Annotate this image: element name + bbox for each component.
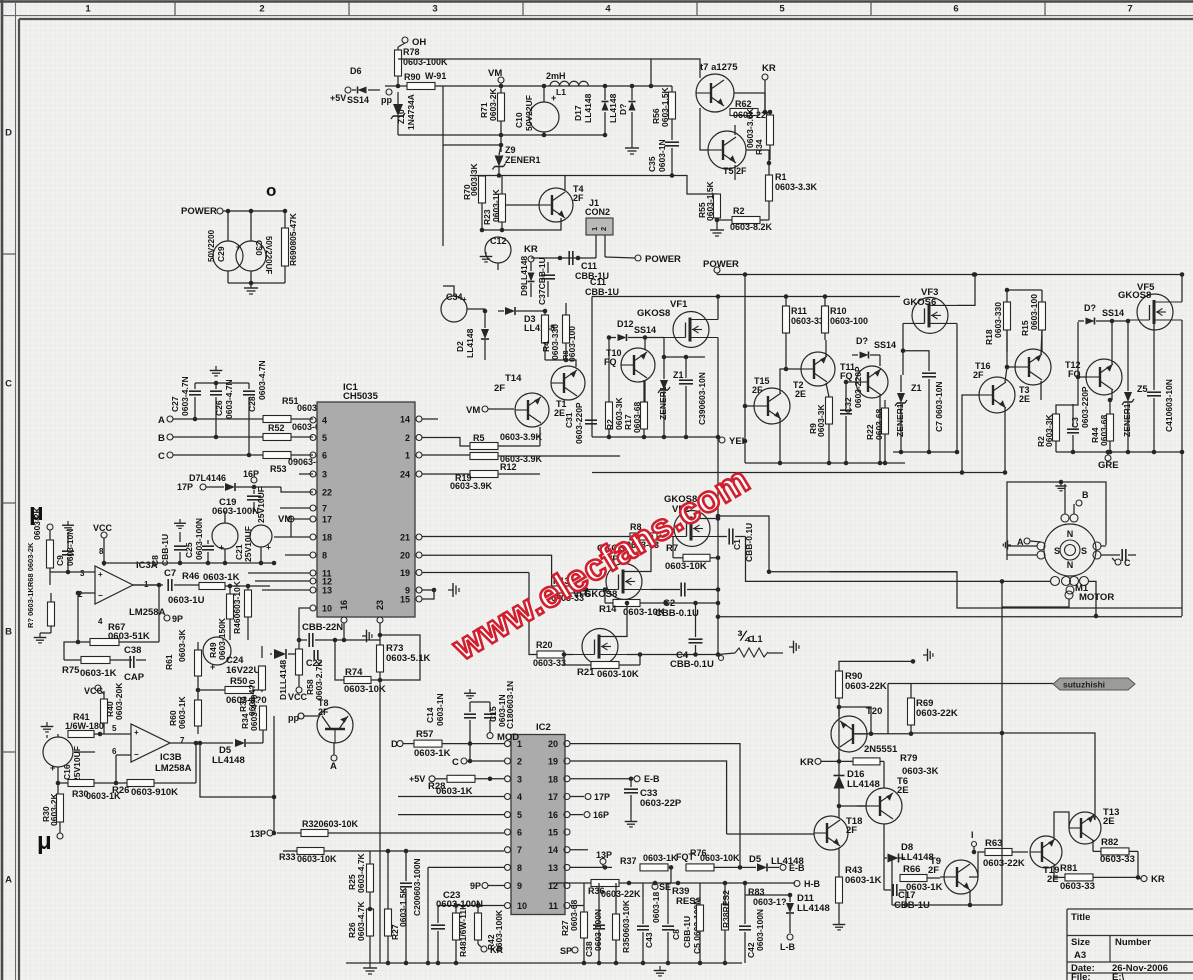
svg-text:0603-3.9K: 0603-3.9K [450,481,493,491]
resistor R26b 0603-910K [127,780,154,787]
IC1 pin21 wire [422,536,630,538]
IC2 pin 20 (right) [564,741,570,747]
node VM at T14 [482,406,488,412]
svg-text:C: C [5,379,12,390]
resistor Rin 0603-1K [48,602,55,626]
svg-text:0603-100N: 0603-100N [755,909,765,951]
svg-text:7: 7 [1127,4,1132,15]
svg-text:VCC: VCC [93,523,113,533]
svg-text:0603-10K: 0603-10K [623,607,665,618]
svg-text:C35: C35 [647,156,657,172]
svg-text:0603-1K: 0603-1K [845,875,882,886]
resistor R8 0603-33 [630,533,657,540]
svg-text:MOTOR: MOTOR [1079,592,1114,603]
IC1 pin 10 (left) [310,605,316,611]
svg-text:C12: C12 [490,236,507,246]
svg-text:R460603-10K: R460603-10K [232,580,242,634]
IC1 pin 4 (left) [310,417,316,423]
mosfet VF6 GKOS8 [573,629,627,665]
IC1 pin20 wire [422,555,552,589]
transistor T6 2E [866,788,902,824]
node POWER mid [635,255,641,261]
svg-text:GKOS8: GKOS8 [637,308,670,319]
capacitor C33 0603-22P [630,779,632,787]
resistor R49 0603-150K [227,594,234,619]
IC2 pin 1 (left) [505,741,511,747]
wire caps bottom join [228,282,285,284]
transistor T11 FQ [856,366,888,398]
wire T5 base R1 [746,150,769,163]
svg-text:+: + [219,542,224,552]
wire R90b top [839,661,913,671]
svg-text:A3: A3 [1074,950,1086,961]
svg-text:CAP: CAP [124,672,145,683]
zener Z10 1N4734A [391,104,405,119]
diode D8 LL4148 [888,854,899,863]
resistor R14 0603-10K [613,600,640,607]
wire motor bottom right [1088,581,1096,616]
svg-text:R21: R21 [577,667,595,678]
svg-text:C29: C29 [216,246,226,262]
diode D16 LL4148 [834,776,845,789]
mosfet VF3 GKOS6 [903,297,957,333]
svg-text:9P: 9P [172,614,183,624]
svg-text:CBB-22N: CBB-22N [302,622,343,633]
svg-text:R66: R66 [903,864,920,875]
svg-text:1N4734A: 1N4734A [406,94,416,130]
resistor R30 0603-1K [68,780,94,787]
IC2 pin 10 (left) [505,903,511,909]
outer border frame [0,0,1193,2]
wire C to R53 [173,454,263,456]
svg-text:LL4148: LL4148 [608,93,618,123]
svg-text:0603-10N: 0603-10N [65,529,75,566]
IC1 pin11 stub [248,572,310,574]
IC1 pin18 stub [274,536,310,538]
wire R73 box [380,635,420,680]
node 9P opamp [164,615,170,621]
IC1 pin7 stub [280,507,310,509]
svg-text:μ: μ [37,828,52,855]
svg-text:LL4148: LL4148 [901,852,934,863]
capacitor C35 0603-1N [665,141,679,143]
svg-text:VF1: VF1 [670,299,688,310]
resistor R62 0603-220 [730,109,758,116]
IC2 pin 18 (right) [564,776,570,782]
svg-text:R75: R75 [62,665,80,676]
wire VM branch left [443,86,501,145]
svg-text:C180603-1N: C180603-1N [505,681,515,729]
wire 13P vertical [273,720,275,833]
resistor R60 0603-1K [195,700,202,726]
resistor R48 1/6W-11K [453,913,460,940]
transistor T14 2F [515,393,549,427]
svg-text:0603-3K: 0603-3K [816,404,826,437]
resistor R34 0603-3.6K [767,115,774,145]
svg-text:R82: R82 [1101,837,1118,848]
IC2 pin5 wire [398,814,504,816]
svg-text:VM: VM [278,514,292,525]
node KR R42 [481,946,487,952]
svg-text:3: 3 [80,569,85,578]
capacitor C11 CBB-1U [568,251,570,265]
IC1 pin 15 (right) [416,596,422,602]
svg-text:0603-68: 0603-68 [874,409,884,440]
svg-text:0603-1K: 0603-1K [491,189,501,222]
resistor R34c [259,666,266,690]
node C input [167,452,173,458]
svg-text:D?: D? [856,336,868,346]
opamp IC3B LM258A [131,724,170,762]
rail vcc 563 [104,562,274,564]
capacitor C15 C18 0603-1N [484,713,496,715]
svg-text:S: S [1081,546,1087,556]
IC1 pin 24 (right) [416,471,422,477]
resistor R73 0603-5.1K [377,645,384,672]
IC1 pin 18 (left) [310,534,316,540]
svg-text:0603-100N: 0603-100N [194,518,204,560]
ruler row tick 2 [2,502,16,504]
svg-text:5: 5 [517,810,522,820]
svg-text:E-B: E-B [644,774,660,784]
IC2 pin18 wire [570,778,631,780]
svg-text:4: 4 [98,617,103,626]
svg-text:FQ: FQ [604,357,617,367]
svg-text:0603-4.7N: 0603-4.7N [224,379,234,419]
rail YEI row [592,436,718,438]
svg-text:1: 1 [405,451,410,461]
mosfet VF4 GKOS8 [597,564,651,600]
svg-text:0603-68: 0603-68 [632,402,642,433]
svg-text:LL4148: LL4148 [797,903,830,914]
svg-text:0603-3.6K: 0603-3.6K [745,107,755,148]
svg-text:0603-2K: 0603-2K [488,88,498,121]
resistor R11 0603-330 [783,306,790,333]
svg-text:2E: 2E [1103,816,1115,827]
svg-text:CBB-1U: CBB-1U [585,287,619,297]
resistor R27c [581,912,588,938]
svg-text:10: 10 [517,901,527,911]
wire T20 collector [839,707,871,734]
svg-text:0603-4.7K: 0603-4.7K [356,900,366,941]
svg-text:6: 6 [953,4,958,15]
svg-text:0603-2K: 0603-2K [49,793,59,826]
svg-text:2E: 2E [1019,394,1030,404]
wire pin24 R19 [422,473,470,475]
svg-text:R33: R33 [279,852,296,862]
rail row3 T16 bottom [592,472,1005,474]
svg-text:GRE: GRE [1098,460,1119,471]
node YEI [719,437,725,443]
capacitor C27 0603-4.7N [194,383,196,389]
svg-text:0603-68: 0603-68 [569,900,579,931]
svg-text:3: 3 [322,470,327,480]
resistor R67 0603-51K [90,639,119,646]
svg-text:3: 3 [517,774,522,784]
wire fb2 [195,743,197,783]
ground R43 [833,920,846,930]
svg-text:0603-1U: 0603-1U [168,595,205,606]
svg-text:R2: R2 [733,206,745,216]
wire motor bus 571 [830,571,957,573]
node SE [652,884,658,890]
wire D7 to pin22 [281,487,313,492]
svg-text:R481/6W-11K: R481/6W-11K [458,903,468,957]
svg-text:0603-33: 0603-33 [533,658,566,668]
svg-text:C10: C10 [514,112,524,128]
ground C12 [480,252,493,262]
resistor R31 0603-2K [57,794,64,822]
wire POWER to caps [223,210,285,212]
capacitor C28 0603-4.7N [248,383,250,389]
capacitor C19 ecap [212,523,238,549]
transistor T19 2E [1030,836,1062,868]
wire VF6 source [627,654,718,656]
wire pin2 R5 [422,438,470,447]
svg-text:R? 0603-1KR68 0603-2K: R? 0603-1KR68 0603-2K [26,542,35,628]
title block frame [1067,908,1193,910]
svg-text:W-91: W-91 [425,71,446,81]
svg-text:LM258A: LM258A [129,607,166,618]
svg-text:SS14: SS14 [347,95,369,105]
resistor R71 0603-2K [498,93,505,121]
svg-text:19: 19 [400,568,410,578]
IC2 pin 3 (left) [505,776,511,782]
svg-text:R5: R5 [473,433,485,443]
svg-text:0603-2K: 0603-2K [32,507,42,540]
transistor T1 2E [551,366,585,400]
ground T5 [710,225,724,236]
capacitor C21 25V10UF [250,525,272,547]
svg-text:D5: D5 [749,854,762,865]
power bus drop [744,275,746,442]
resistor R74 0603-10K [344,677,371,684]
capacitor C24 16V22UF [203,637,231,665]
svg-text:0603-4.7N: 0603-4.7N [180,376,190,416]
svg-text:POWER: POWER [645,254,681,265]
svg-text:A: A [158,415,165,426]
IC2 pin11 stub [570,905,584,907]
svg-text:2: 2 [259,4,264,15]
svg-text:−: − [98,591,103,600]
svg-text:R320603-10K: R320603-10K [302,819,359,829]
wire VF2 drain right [718,516,769,572]
ruler column tick 1 [174,2,176,16]
svg-text:GKOS6: GKOS6 [903,297,936,308]
svg-text:0603-5.1K: 0603-5.1K [386,653,431,664]
svg-text:0603-100: 0603-100 [830,316,868,326]
wire R71 to Z9 [500,140,502,152]
IC2 pin 7 (left) [505,847,511,853]
svg-text:D6: D6 [350,66,362,76]
svg-text:2E: 2E [897,785,909,796]
node MOD [487,733,493,739]
IC2 pin14 stub [570,849,588,851]
wire T18 collector [838,806,840,818]
svg-text:13: 13 [548,863,558,873]
wire A to R51 [173,418,263,420]
diode D9 LL4148 [528,273,535,282]
svg-text:7: 7 [517,845,522,855]
svg-text:15: 15 [548,828,558,838]
svg-text:D12: D12 [617,319,634,329]
svg-text:17: 17 [322,515,332,525]
svg-text:20: 20 [400,551,410,561]
IC1 pin8 stub [285,554,310,556]
svg-text:18: 18 [322,533,332,543]
svg-text:POWER: POWER [181,206,217,217]
svg-text:+: + [462,295,467,304]
node mic2 bottom [57,833,63,839]
wire T20 right [854,733,911,735]
svg-text:LL4148: LL4148 [465,328,475,358]
resistor R36 0603-22K [591,880,619,887]
svg-text:R37: R37 [620,856,637,866]
wire fb node [78,593,90,642]
node KR T6 [815,758,821,764]
transistor T16 2F [979,377,1015,413]
svg-text:C11: C11 [581,261,597,271]
svg-text:R78: R78 [403,47,420,57]
svg-text:R53: R53 [270,464,287,474]
svg-text:LL4148: LL4148 [212,755,245,766]
resistor R46b 0603-10K [245,590,252,617]
IC1 pin14 stub [422,418,438,420]
svg-text:+5V: +5V [409,774,425,784]
svg-text:CBB-1U: CBB-1U [160,534,170,566]
node SP [572,947,578,953]
svg-text:14: 14 [400,415,410,425]
svg-text:19: 19 [548,757,558,767]
resistor R22 0603-68 [882,408,889,434]
resistor R55 0603-1.5K [714,194,721,218]
resistor R4 0603-330 [542,315,549,343]
svg-text:C410603-10N: C410603-10N [1164,379,1174,432]
ruler column tick 6 [1044,2,1046,16]
IC2 pin10 wire [438,905,504,907]
svg-text:0603-10K: 0603-10K [344,684,386,695]
svg-text:0603-3.9K: 0603-3.9K [500,432,543,442]
resistor R63 0603-22K [985,849,1012,856]
resistor R90b 0603-22K [836,671,843,698]
svg-text:+: + [50,763,55,773]
ruler row tick 3 [2,751,16,753]
node A motor [1024,538,1030,544]
svg-text:5: 5 [322,433,327,443]
node C in [461,758,467,764]
svg-text:SS14: SS14 [634,325,656,335]
IC1 pin16 wire [343,623,345,640]
wire T6 base [839,805,866,807]
svg-text:25V10UF: 25V10UF [256,487,266,523]
svg-text:R690805-47K: R690805-47K [288,212,298,266]
wire cap top rail [195,382,249,384]
svg-text:17P: 17P [177,482,193,492]
svg-text:C1: C1 [732,539,742,550]
svg-text:T20: T20 [866,706,882,717]
svg-text:+: + [266,542,271,552]
svg-text:C37CBB-1U: C37CBB-1U [537,257,547,305]
ruler row tick 1 [2,253,16,255]
resistor R12 0603-3.9K [470,453,498,460]
IC1 pin 12 (left) [310,578,316,584]
svg-text:2F: 2F [973,370,984,380]
svg-text:S: S [1054,546,1060,556]
transistor T20 2N5551 [831,716,867,752]
svg-text:4: 4 [605,4,611,15]
resistor R53 0603-680 [263,452,291,459]
wire T9 bottom box [905,890,907,905]
IC1 pin19 wire [422,572,529,574]
svg-text:50V22UF: 50V22UF [524,95,534,131]
svg-text:4: 4 [517,792,522,802]
wire cell1 left edge [591,297,593,438]
wire motor drop 1002 [1001,581,1003,905]
svg-text:C7: C7 [164,568,176,579]
motor winding right [1093,542,1101,550]
svg-text:C32: C32 [843,397,853,413]
motor left ground [1003,540,1011,550]
ground power input [244,283,258,294]
svg-text:C3: C3 [1070,417,1080,428]
resistor R37 0603-1K [640,864,668,871]
node B input [167,434,173,440]
svg-text:B: B [158,433,165,444]
svg-text:0603-100N: 0603-100N [593,909,603,951]
wire VF1 cell z-row [664,356,705,358]
resistor R18 0603-330 [1004,302,1011,330]
rail GRE row [1056,451,1182,453]
svg-text:0603-1K: 0603-1K [643,853,678,863]
resistor R46a 0603-1K [199,583,225,590]
node GRE [1105,455,1111,461]
svg-text:14: 14 [548,845,558,855]
svg-text:−: − [134,750,139,759]
resistor R52 0603-680 [263,434,291,441]
wire VF4 source [651,589,680,591]
wire B to R52 [173,436,263,438]
svg-text:8: 8 [517,863,522,873]
rail 296 row [592,296,900,298]
resistor R75 0603-1K [81,657,110,664]
svg-text:E:\: E:\ [1112,972,1125,980]
ground motor top [1055,482,1066,491]
resistor R8b 0603-100 [563,315,570,343]
resistor R82 0603-33 [1101,848,1129,855]
IC2 pin17 wire 17P [570,796,584,798]
wire top to t7 [651,59,700,78]
svg-text:R57: R57 [416,729,433,740]
resistor R57 0603-1K [397,741,403,747]
svg-text:Size: Size [1071,937,1090,948]
resistor R70 0603-3K [479,176,486,203]
mic capsule C16 [43,737,73,767]
wire motor feed 571 [769,572,1182,608]
capacitor C43 [637,925,649,927]
node KR t7 [762,74,768,80]
svg-text:10: 10 [322,604,332,614]
svg-text:SS14: SS14 [874,340,896,350]
resistor R69b 0603-22K [908,698,915,725]
IC2 pin 6 (left) [505,829,511,835]
ruler column tick 4 [696,2,698,16]
svg-text:+: + [98,570,103,579]
node 13P [267,830,273,836]
node VCC D1 [296,687,302,693]
svg-text:0603-100N: 0603-100N [212,506,259,517]
transistor T13 2E [1069,812,1101,844]
resistor R7 0603-10K [683,554,710,561]
